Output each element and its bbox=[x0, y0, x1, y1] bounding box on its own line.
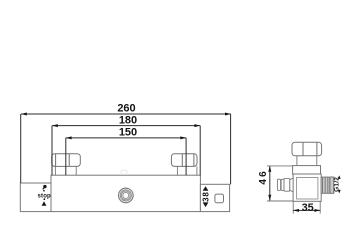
dimension 260 right arrow bbox=[225, 113, 231, 116]
left nut neck bbox=[54, 166, 56, 175]
stop marker triangle bbox=[42, 201, 47, 206]
svg-text:38: 38 bbox=[202, 191, 211, 202]
dimension 35 left arrow bbox=[293, 209, 299, 212]
stop marker curved arrow bbox=[43, 185, 46, 188]
svg-text:180: 180 bbox=[119, 115, 137, 127]
dimension 180 right extension line bbox=[199, 126, 201, 176]
outlet nozzle rib 1 bbox=[277, 179, 280, 190]
dimension 46 down arrow bbox=[268, 195, 271, 201]
dimension 46 bottom extension line bbox=[267, 200, 293, 202]
outlet nozzle rib 2 bbox=[281, 179, 284, 190]
38 dimension arrow down bbox=[203, 202, 209, 207]
right nut neck bbox=[176, 166, 178, 175]
dimension 35 right extension line bbox=[319, 201, 321, 213]
diverter cap concentric circles bbox=[119, 188, 134, 203]
dimension 260 line bbox=[21, 113, 231, 115]
dimension 180 left arrow bbox=[52, 124, 58, 127]
dimension 150 left extension line bbox=[65, 138, 67, 175]
outlet nozzle flare bbox=[290, 178, 293, 192]
valve body center section (front view) bbox=[51, 175, 200, 211]
stop marker dot lower bbox=[44, 198, 46, 200]
dimension 46 top extension line bbox=[267, 165, 292, 167]
side collar bbox=[293, 166, 321, 174]
valve body left outlet section bbox=[20, 183, 51, 212]
side body square inner bbox=[297, 178, 318, 200]
dimension 150 right arrow bbox=[180, 136, 186, 139]
stop marker dot upper bbox=[43, 190, 45, 192]
svg-text:46: 46 bbox=[258, 169, 269, 185]
side body square outer bbox=[293, 174, 321, 201]
38 dimension arrow up bbox=[203, 186, 209, 191]
left mounting nut bbox=[52, 154, 81, 167]
label 35 background bbox=[301, 203, 315, 210]
dimension 180 right arrow bbox=[194, 124, 200, 127]
dimension 35 line bbox=[293, 209, 320, 211]
G1/2 arrow down bbox=[338, 190, 341, 194]
set screw square on right section bbox=[215, 194, 224, 203]
dimension 46 line bbox=[269, 166, 271, 201]
dimension 260 left extension line bbox=[20, 114, 22, 183]
dimension 150 right extension line bbox=[185, 138, 187, 175]
dimension 46 up arrow bbox=[268, 166, 271, 172]
svg-text:G1/2: G1/2 bbox=[333, 177, 340, 192]
dimension 150 line bbox=[66, 137, 186, 139]
dimension 150 left arrow bbox=[66, 136, 72, 139]
valve body right end section bbox=[200, 184, 229, 211]
dimension 35 left extension line bbox=[292, 201, 294, 213]
thread lines bbox=[322, 177, 324, 193]
center cap bump on body top bbox=[121, 170, 127, 175]
threaded inlet G1/2 outline bbox=[321, 177, 334, 193]
thread end cap bbox=[330, 177, 334, 193]
G1/2 arrow up bbox=[338, 175, 341, 179]
dimension 35 right arrow bbox=[314, 209, 320, 212]
side view hex nut bbox=[292, 142, 322, 156]
svg-text:260: 260 bbox=[117, 103, 135, 115]
outlet nozzle body bbox=[284, 179, 290, 192]
right mounting nut bbox=[171, 154, 197, 167]
dimension 180 line bbox=[52, 125, 200, 127]
dimension 260 right extension line bbox=[230, 114, 232, 184]
dimension 260 left arrow bbox=[21, 113, 27, 116]
dimension 180 left extension line bbox=[51, 126, 53, 176]
right nut facet lines bbox=[181, 154, 183, 167]
side nut neck bbox=[296, 156, 298, 166]
left nut facet lines bbox=[55, 154, 57, 166]
svg-text:35: 35 bbox=[302, 202, 314, 214]
side nut facet lines bbox=[302, 143, 304, 156]
svg-text:150: 150 bbox=[119, 127, 137, 139]
